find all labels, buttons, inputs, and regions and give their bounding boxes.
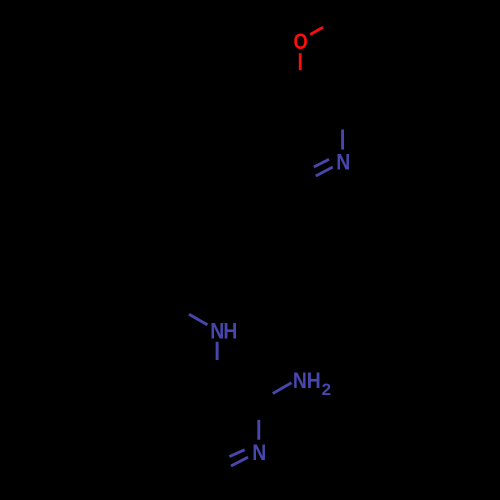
wire: bond O-CH3 (red half) bbox=[310, 27, 323, 34]
wire: bond C-NH (blue half, diagonal) bbox=[189, 314, 208, 325]
svg-text:N: N bbox=[293, 369, 307, 393]
wire: bond C2-NH2 (blue half, diagonal) bbox=[273, 383, 292, 394]
svg-text:N: N bbox=[210, 319, 224, 343]
wire: double bond N=C2 main line (blue half) bbox=[316, 167, 333, 176]
svg-text:N: N bbox=[336, 150, 350, 174]
wire: double bond N=C2 inner line (blue half) bbox=[314, 159, 329, 167]
svg-text:N: N bbox=[252, 441, 266, 465]
wire: bond NH-C3 (blue half, vertical) bbox=[216, 342, 219, 360]
svg-text:H: H bbox=[307, 369, 321, 393]
wire: bond O-C5 (red half, vertical) bbox=[299, 53, 302, 70]
wire: double bond N1=C6 inner line (blue half) bbox=[229, 450, 244, 457]
svg-text:H: H bbox=[223, 319, 237, 343]
wire: bond N-C4 (blue half, vertical) top pyridine bbox=[341, 130, 344, 150]
wire: double bond N1=C6 main line (blue half) bbox=[231, 457, 248, 466]
wire: bond C2-N1 (blue half, vertical) bottom pyridine bbox=[257, 420, 260, 440]
svg-text:O: O bbox=[294, 30, 308, 54]
svg-text:2: 2 bbox=[322, 380, 331, 399]
